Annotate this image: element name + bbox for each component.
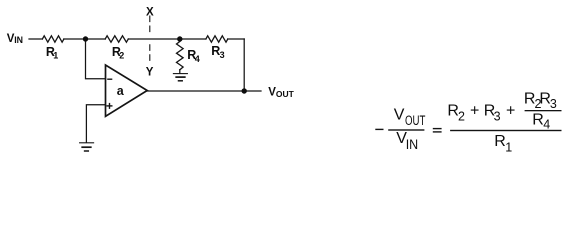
svg-text:3: 3 [494,110,501,124]
svg-text:OUT: OUT [405,113,425,128]
formula R2R3/R4 fraction bar [525,110,562,111]
junction node A (R1/R2/inverting input) [83,36,88,41]
formula equals sign [433,128,442,129]
wire node A to R2 (continues) [128,38,206,40]
op-amp non-inverting input marker (+) [107,103,113,109]
svg-text:IN: IN [406,137,419,152]
svg-text:2: 2 [119,50,124,60]
svg-text:V: V [394,106,405,123]
net VOUT label [268,86,294,99]
svg-text:3: 3 [220,50,225,60]
label R1 [46,45,58,61]
wire right vertical: corner down to output node [243,39,245,91]
svg-text:R: R [494,133,506,150]
junction node B (R2/R3/R4) [177,36,182,41]
net VIN label [7,33,23,45]
wire VIN to R1 [29,38,42,40]
svg-text:a: a [117,84,125,98]
op-amp inverting input marker (-) [107,78,112,80]
divider line X-Y (dashed), lower half [149,44,151,61]
svg-text:R: R [532,111,544,128]
svg-text:Y: Y [146,66,154,78]
svg-text:3: 3 [550,97,557,111]
label R4 [187,48,200,64]
wire op-amp output to VOUT [147,90,261,92]
svg-text:4: 4 [195,54,200,64]
formula main fraction bar [450,130,561,131]
svg-text:2: 2 [458,110,465,124]
label R2 [112,45,124,61]
svg-text:+: + [506,103,515,120]
formula VOUT/VIN fraction bar [388,129,424,130]
wire R1 to node A [64,38,105,40]
svg-text:OUT: OUT [276,89,295,99]
resistor R3 [206,36,228,42]
resistor R4 [177,42,184,70]
svg-text:1: 1 [505,140,512,154]
resistor R2 [105,36,128,42]
ground below R4 [173,74,187,81]
wire R3 to top-right corner [228,38,244,40]
wire feedback: node A down to inverting input [86,39,106,79]
svg-text:X: X [146,6,154,18]
svg-text:+: + [470,103,479,120]
junction output node [242,88,247,93]
ground at non-inverting input [80,143,94,151]
resistor R1 [42,36,64,42]
formula minus sign [375,129,383,130]
svg-text:IN: IN [14,35,23,45]
svg-text:1: 1 [53,50,58,60]
divider line X-Y (dashed), upper half [149,16,151,33]
label R3 [211,44,224,60]
op-amp U1 [106,65,148,116]
formula: -VOUT/VIN = (R2+R3+R2R3/R4)/R1 [375,90,561,154]
wire non-inverting input to ground [86,105,105,143]
svg-text:4: 4 [543,118,550,132]
wire R4 to ground [179,70,181,74]
